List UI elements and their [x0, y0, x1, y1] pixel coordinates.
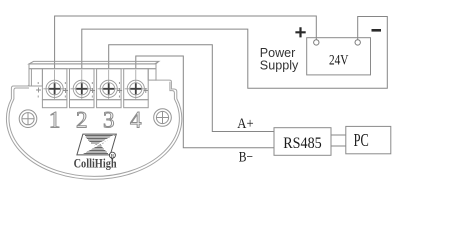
svg-text:24V: 24V [329, 53, 349, 69]
svg-text:3: 3 [103, 107, 115, 132]
svg-text:2: 2 [76, 107, 88, 132]
svg-text:RS485: RS485 [283, 135, 322, 152]
svg-text:B−: B− [239, 149, 253, 165]
svg-text:1: 1 [49, 107, 61, 132]
svg-text:A+: A+ [237, 116, 253, 132]
svg-text:Supply: Supply [260, 58, 299, 73]
svg-text:4: 4 [130, 107, 142, 132]
svg-text:PC: PC [354, 130, 369, 150]
svg-text:ColliHigh: ColliHigh [74, 157, 117, 171]
